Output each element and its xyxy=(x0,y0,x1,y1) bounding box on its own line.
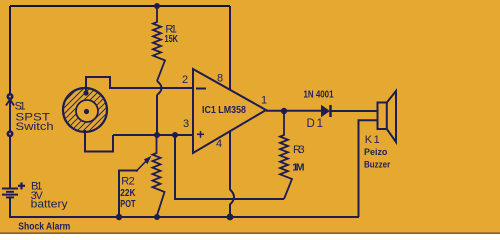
R1 wire hop over pin2 wire xyxy=(157,81,162,95)
svg-text:R2: R2 xyxy=(121,176,135,188)
wire: sensor bottom plate to pin 3 xyxy=(85,130,113,152)
plus sign pin3 xyxy=(197,131,204,138)
wire: op-amp output pin 1 xyxy=(266,110,321,112)
speaker K1 cone xyxy=(387,91,396,142)
wire: switch to battery xyxy=(9,136,11,188)
op-amp IC1 triangle xyxy=(193,69,266,153)
wire: sensor top plate to pin 2 xyxy=(86,77,193,94)
svg-text:8: 8 xyxy=(217,73,223,85)
svg-text:IC1 LM358: IC1 LM358 xyxy=(202,105,246,116)
svg-text:2: 2 xyxy=(182,74,188,86)
diode D1 triangle xyxy=(321,105,330,117)
wire: top V+ rail xyxy=(10,5,230,7)
label B1 3V battery xyxy=(31,181,69,211)
junction node rail wiper xyxy=(116,214,122,220)
svg-text:Buzzer: Buzzer xyxy=(364,160,390,171)
svg-text:R3: R3 xyxy=(293,144,305,156)
svg-text:22K: 22K xyxy=(120,188,136,199)
junction node output xyxy=(281,108,287,114)
diode D1 cathode bar xyxy=(329,105,332,117)
junction node top rail xyxy=(154,3,160,9)
wire: feedback from pin3 node to R3 bottom xyxy=(175,135,284,199)
battery B1 plates xyxy=(2,188,18,190)
switch arrowhead xyxy=(6,99,14,105)
svg-text:1M: 1M xyxy=(292,162,305,174)
svg-text:1N 4001: 1N 4001 xyxy=(304,90,334,101)
svg-text:3: 3 xyxy=(183,118,189,130)
sensor top contact dot xyxy=(83,90,88,95)
junction node rail pin4 xyxy=(227,214,234,221)
wire: pin 4 to ground xyxy=(229,131,231,190)
svg-text:Shock Alarm: Shock Alarm xyxy=(18,222,70,233)
bottom edge line xyxy=(0,232,500,234)
battery plus sign xyxy=(18,182,25,189)
wire: R1 hop to pin3 node xyxy=(156,95,158,135)
pot wiper arrowhead xyxy=(144,156,152,164)
svg-text:Peizo: Peizo xyxy=(364,147,388,158)
wire: pin4 hop to ground rail xyxy=(229,204,231,217)
label S1 SPST Switch xyxy=(15,101,54,134)
wire: left rail down to switch xyxy=(9,6,11,96)
resistor R1 zigzag xyxy=(153,6,165,81)
switch node bottom xyxy=(7,130,14,137)
junction node rail pot xyxy=(154,214,160,220)
speaker K1 body rect xyxy=(378,103,387,130)
piezo sensor inner circle xyxy=(76,100,98,122)
switch S1 blade wire xyxy=(9,100,11,134)
svg-text:POT: POT xyxy=(120,199,135,210)
svg-text:battery: battery xyxy=(31,199,69,211)
wire: pot wiper to ground rail xyxy=(119,171,138,218)
pin4 wire hop over feedback wire xyxy=(230,190,234,205)
piezo sensor outer circle xyxy=(63,88,107,132)
svg-text:15K: 15K xyxy=(165,34,179,45)
svg-text:4: 4 xyxy=(216,138,222,150)
wire: speaker return to ground rail xyxy=(359,120,378,217)
svg-text:Switch: Switch xyxy=(16,121,54,133)
sensor hatching xyxy=(64,89,107,132)
junction node pin3/feedback xyxy=(172,132,178,138)
svg-text:D1: D1 xyxy=(307,118,324,130)
wire: pin 3 input xyxy=(113,134,193,136)
resistor R3 zigzag xyxy=(280,111,292,199)
svg-text:1: 1 xyxy=(261,95,267,107)
sensor center contact dot xyxy=(84,109,89,114)
resistor R2 zigzag xyxy=(153,135,165,217)
wire: pin 8 from V+ rail xyxy=(229,6,231,90)
minus sign pin2 xyxy=(196,88,206,90)
pot wiper arrow shaft xyxy=(136,159,148,172)
wire: battery to bottom rail xyxy=(10,197,359,217)
switch node top xyxy=(7,93,14,100)
wire: diode to speaker xyxy=(331,110,377,112)
junction node pin3/R1 xyxy=(154,132,160,138)
